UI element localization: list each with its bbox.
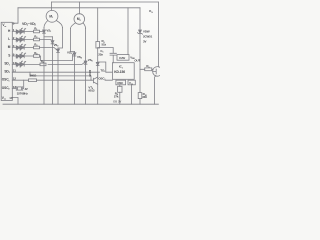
LED VD4 xyxy=(16,54,24,57)
wire M1 right lead xyxy=(56,21,62,28)
transistor VT6 9013 xyxy=(91,72,98,84)
wire row SD1 xyxy=(12,63,84,65)
svg-text:OSC: OSC xyxy=(117,81,124,85)
svg-text:3AX80: 3AX80 xyxy=(89,69,92,77)
wire mesh base row xyxy=(30,76,91,80)
motor M1 xyxy=(46,10,58,22)
wire R10 bottom xyxy=(139,99,141,105)
wire VT7 emitter xyxy=(155,76,156,105)
wire row OSC1 xyxy=(12,79,112,81)
wire pin5 riser xyxy=(12,8,18,23)
wire VS2 anode stub xyxy=(44,36,53,38)
svg-text:DAV: DAV xyxy=(119,56,125,60)
text labels xyxy=(2,9,153,103)
wire mesh stub A xyxy=(29,72,31,76)
wire VDD drop xyxy=(127,8,129,55)
wire top rail lower xyxy=(18,7,140,9)
wire column VS1 xyxy=(43,28,45,105)
resistor R4 xyxy=(34,55,40,58)
resistor R9 xyxy=(145,68,152,71)
svg-text:10: 10 xyxy=(9,96,13,100)
transistor VT7 circle xyxy=(153,67,163,77)
svg-text:JZ: JZ xyxy=(25,87,29,91)
LED VD5 xyxy=(16,63,24,66)
svg-text:32768Hz: 32768Hz xyxy=(17,92,29,96)
capacitor C1 xyxy=(98,48,117,63)
wire M1 top lead xyxy=(51,2,53,10)
zener VDW 2CW51 xyxy=(139,30,142,33)
wire R8 leads xyxy=(119,85,121,104)
wire row SD2 to TG1 xyxy=(12,71,112,73)
wire column M1R xyxy=(58,28,63,48)
wire column VS4 xyxy=(74,52,76,105)
svg-text:330: 330 xyxy=(142,95,147,99)
wire top rail upper xyxy=(52,1,159,3)
wire row M xyxy=(12,48,56,50)
box OSC pin xyxy=(116,80,126,85)
wire M1 left lead xyxy=(44,21,48,28)
resistor R5 xyxy=(40,63,46,66)
crystal JZ 32768Hz xyxy=(16,87,22,91)
diode trigger xyxy=(96,62,99,65)
thyristor VS2 xyxy=(51,41,54,44)
svg-text:13: 13 xyxy=(13,85,17,89)
thyristor VS3 xyxy=(57,49,60,52)
resistor R8 xyxy=(118,86,122,92)
resistor R2 xyxy=(34,38,40,41)
resistor R6 xyxy=(96,42,100,49)
LED VD1 xyxy=(16,30,24,33)
thyristor VS1 xyxy=(43,30,46,33)
box DAV xyxy=(117,55,129,61)
wire crystal riser xyxy=(23,80,24,88)
IC1 KD-156 box xyxy=(112,63,134,80)
svg-text:11: 11 xyxy=(13,69,16,73)
svg-text:VDW: VDW xyxy=(143,30,150,34)
resistor R1 xyxy=(34,30,40,33)
wire M2 right lead xyxy=(83,23,86,29)
wire M2 top lead xyxy=(78,2,80,14)
wire zener column lower xyxy=(139,33,141,92)
svg-text:22n: 22n xyxy=(98,52,103,56)
IC U1 left controller box xyxy=(1,22,12,100)
svg-text:14: 14 xyxy=(13,61,17,65)
wire row H xyxy=(12,31,42,33)
LED VD3 xyxy=(16,46,24,49)
wire column VS3 xyxy=(57,48,59,104)
thyristor VS4 xyxy=(73,53,76,56)
wire R9 row xyxy=(140,68,153,70)
svg-text:S: S xyxy=(8,53,10,57)
svg-text:360Ω: 360Ω xyxy=(30,74,38,78)
resistor R3 xyxy=(34,46,40,49)
svg-text:OUT: OUT xyxy=(134,59,140,63)
wire column VS2 xyxy=(52,37,54,104)
wire row S xyxy=(12,54,73,61)
svg-text:GB 3V: GB 3V xyxy=(113,100,121,104)
thyristor VS5 xyxy=(84,61,87,64)
wire zener column upper xyxy=(139,8,141,30)
wire trigger drop xyxy=(98,62,106,72)
wire column M2L xyxy=(71,29,75,52)
wire M2 left lead xyxy=(71,23,76,29)
wire row L xyxy=(12,39,51,41)
svg-text:27k: 27k xyxy=(114,94,119,98)
wire row OSC2 crystal xyxy=(12,88,16,90)
svg-text:12: 12 xyxy=(13,77,17,81)
LED VD2 xyxy=(16,38,24,41)
svg-text:2CW51: 2CW51 xyxy=(143,35,153,39)
wire Vss lead xyxy=(131,85,133,104)
svg-text:51k: 51k xyxy=(102,42,107,46)
wire right rail xyxy=(157,2,159,67)
wire Vss pin10 xyxy=(12,98,18,105)
wire bottom rail xyxy=(3,103,158,105)
svg-text:L: L xyxy=(8,37,10,41)
svg-text:3V: 3V xyxy=(143,39,147,43)
motor M2 xyxy=(74,14,85,25)
box VSS pin xyxy=(128,80,135,85)
svg-text:9013: 9013 xyxy=(88,89,95,93)
resistor R10 330 xyxy=(138,93,142,99)
wire R6 drop xyxy=(97,8,99,42)
svg-text:KD-156: KD-156 xyxy=(114,70,125,74)
resistor R osc 360 xyxy=(29,79,37,82)
wire column VS5 xyxy=(85,29,87,105)
wire column trigger xyxy=(97,48,99,104)
svg-text:M: M xyxy=(8,45,11,49)
